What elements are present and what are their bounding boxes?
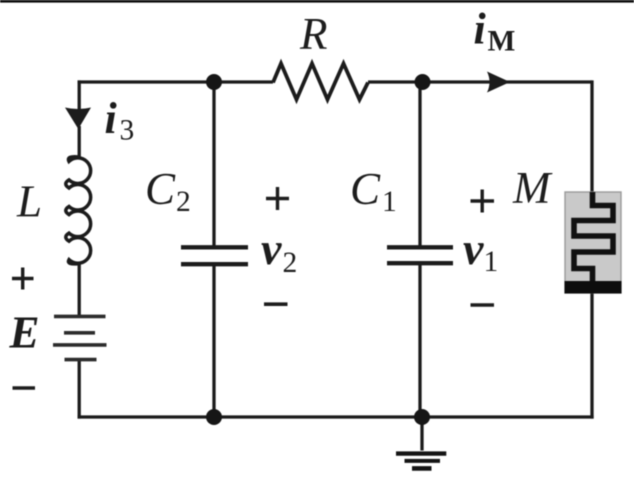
wire battery-to-bottom corner xyxy=(78,360,81,419)
svg-text:2: 2 xyxy=(283,247,298,279)
wire right branch lower (memristor to bottom corner) xyxy=(590,292,593,419)
minus sign (E) xyxy=(13,386,36,390)
svg-text:3: 3 xyxy=(120,115,135,147)
svg-text:v: v xyxy=(463,223,484,274)
wire left branch upper (corner down to arrow i3) xyxy=(78,80,81,109)
node dot top-left (C2/top wire) xyxy=(206,74,222,90)
plus sign (v1) xyxy=(471,190,495,213)
svg-text:C: C xyxy=(350,164,381,214)
ground xyxy=(396,454,446,469)
plus sign (E) xyxy=(12,268,34,290)
svg-text:L: L xyxy=(16,177,42,227)
svg-text:M: M xyxy=(488,26,516,58)
wire top-left horizontal (node A to resistor) xyxy=(78,80,273,83)
top border bar xyxy=(0,0,634,3)
minus sign (v1) xyxy=(471,303,495,307)
svg-text:M: M xyxy=(512,163,553,213)
svg-text:i: i xyxy=(105,94,118,143)
resistor R xyxy=(273,64,368,100)
node dot top-right (C1/top wire) xyxy=(415,74,431,90)
current arrow iM (right) xyxy=(487,72,510,93)
svg-text:i: i xyxy=(474,5,487,54)
svg-text:E: E xyxy=(9,308,40,358)
svg-text:v: v xyxy=(261,223,282,274)
wire C1 branch upper xyxy=(418,82,421,246)
wire top-right horizontal (resistor to node B and right corner) xyxy=(368,80,592,83)
wire ground stub xyxy=(420,417,423,451)
wire inductor-to-battery xyxy=(78,263,81,315)
plus sign (v2) xyxy=(266,187,289,210)
svg-text:C: C xyxy=(145,164,176,214)
svg-text:2: 2 xyxy=(176,186,191,218)
wire C1 branch lower xyxy=(418,264,421,417)
node dot bottom-right (C1/ground) xyxy=(414,409,430,425)
battery E xyxy=(53,316,107,359)
inductor L xyxy=(66,157,91,264)
minus sign (v2) xyxy=(264,302,288,306)
svg-text:R: R xyxy=(299,9,328,59)
wire arrow-to-inductor xyxy=(78,126,81,158)
wire bottom horizontal xyxy=(78,415,594,418)
memristor M xyxy=(565,192,622,294)
capacitor C2 xyxy=(181,247,248,264)
svg-text:1: 1 xyxy=(382,186,397,218)
capacitor C1 xyxy=(387,247,453,263)
svg-text:1: 1 xyxy=(484,246,499,278)
wire C2 branch upper xyxy=(212,82,215,246)
wire C2 branch lower xyxy=(212,265,215,417)
wire right branch upper (corner to memristor) xyxy=(590,80,593,193)
node dot bottom-left (C2/bottom wire) xyxy=(206,409,222,425)
current arrow i3 (down) xyxy=(65,108,91,130)
